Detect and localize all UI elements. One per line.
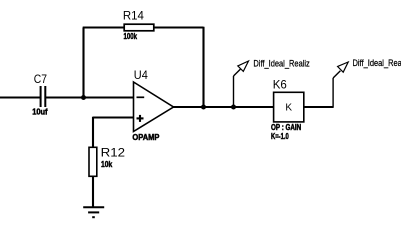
svg-text:C7: C7 [34, 72, 47, 86]
wire R12 to ground [92, 177, 94, 208]
port arrow Diff_Ideal_Realiz output [338, 58, 401, 72]
svg-text:K6: K6 [273, 78, 287, 92]
wire feedback top right segment [154, 26, 204, 28]
resistor R14 [123, 8, 154, 41]
svg-text:U4: U4 [134, 68, 148, 82]
svg-text:Diff_Ideal_Realiz: Diff_Ideal_Realiz [353, 58, 401, 69]
ground [83, 207, 104, 217]
svg-text:K=-1.0: K=-1.0 [271, 132, 289, 141]
wire feedback top left segment [83, 26, 124, 28]
svg-text:100k: 100k [124, 32, 138, 41]
svg-text:K: K [285, 103, 292, 114]
op-amp U4 [132, 68, 173, 142]
wire port 1 riser [234, 69, 241, 107]
wire feedback vertical left [82, 28, 84, 98]
wire input left [0, 96, 41, 98]
node output junction [201, 105, 206, 110]
capacitor C7 [32, 72, 48, 117]
wire feedback vertical right [202, 27, 204, 107]
svg-text:Diff_Ideal_Realiz: Diff_Ideal_Realiz [253, 59, 310, 70]
svg-text:OP : GAIN: OP : GAIN [271, 123, 301, 132]
svg-text:10uf: 10uf [32, 108, 48, 117]
wire K6 output [304, 71, 340, 108]
node junction at feedback tap [81, 95, 86, 100]
node tap junction [231, 105, 236, 110]
svg-text:R12: R12 [101, 145, 126, 159]
resistor R12 [89, 145, 125, 176]
gain block K6 [271, 78, 304, 141]
svg-text:OPAMP: OPAMP [132, 133, 160, 142]
port arrow Diff_Ideal_Realiz [238, 59, 310, 72]
wire plus input horizontal [93, 116, 134, 118]
wire opamp output to K6 [174, 106, 274, 108]
wire plus input vertical down to R12 [92, 117, 94, 147]
svg-text:10k: 10k [101, 160, 113, 169]
svg-text:R14: R14 [123, 8, 144, 22]
wire C7 to opamp minus input [45, 96, 133, 98]
